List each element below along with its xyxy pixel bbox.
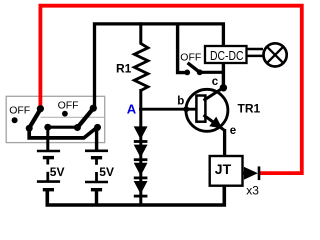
wire: node A to base (139, 108, 197, 111)
svg-text:x3: x3 (246, 183, 259, 197)
diode D5 (x3) (244, 167, 258, 180)
battery B1 (46, 126, 49, 151)
diode D3 (134, 163, 148, 176)
wire: S1 common to B2 feed (lower bus) (29, 128, 97, 138)
lamp L1 (264, 43, 287, 66)
DC-DC converter box U1 (205, 46, 247, 63)
wire: JT to diode anode (243, 172, 248, 175)
wire: battery B2 bottom stub (95, 189, 98, 206)
wire: black rail from switch S2 up, across top, down to DC-DC (95, 24, 224, 107)
wire: S3 feed from top rail (178, 26, 185, 73)
wire: DC-DC to lamp (lower) (247, 55, 264, 58)
svg-text:JT: JT (215, 161, 232, 177)
S1 top contact dot (37, 105, 44, 112)
S1 off contact dot (12, 117, 18, 123)
node b junction dot (183, 106, 189, 112)
svg-text:5V: 5V (50, 165, 65, 179)
svg-text:TR1: TR1 (238, 102, 261, 116)
transistor TR1 (186, 89, 228, 131)
svg-text:OFF: OFF (58, 100, 79, 112)
svg-text:OFF: OFF (9, 105, 30, 117)
wire: bottom ground rail (47, 186, 224, 205)
S3 lever (open) (188, 63, 200, 72)
wire: DC-DC to lamp (upper) (247, 48, 264, 51)
switch panel grey box (6, 96, 105, 142)
svg-text:DC-DC: DC-DC (210, 49, 244, 63)
S2 common dot (74, 124, 81, 131)
svg-text:c: c (212, 76, 219, 88)
diode D2 (134, 145, 148, 158)
svg-text:e: e (230, 125, 236, 137)
diode D4 (134, 181, 148, 194)
S2 lever (78, 109, 93, 127)
battery B2 (95, 127, 98, 152)
wire: DC-DC bottom to node c (222, 62, 225, 88)
wire: emitter down to JT (223, 129, 226, 157)
svg-text:5V: 5V (99, 165, 114, 179)
wire: upper bus B1 feed to S2 common (48, 126, 78, 129)
wire: S3 to collector line (200, 71, 224, 74)
wire: red positive rail (switch S1 up, across top, down right side, to diode x3) (40, 6, 301, 173)
node c dot (220, 84, 227, 91)
S1 lever (30, 110, 40, 127)
node B1 feed dot (44, 124, 51, 131)
S3 left contact dot (184, 70, 190, 76)
wire: R1 top feed (139, 22, 142, 44)
resistor R1 (134, 44, 148, 91)
JT box U2 (210, 156, 243, 186)
S2 top contact dot (90, 105, 97, 112)
svg-text:b: b (177, 96, 184, 108)
panel inner grey line (41, 116, 105, 118)
svg-text:R1: R1 (116, 61, 132, 75)
diode D1 (134, 126, 148, 139)
S2 off contact dot (62, 111, 68, 117)
wire: diode chain vertical (139, 89, 142, 205)
svg-text:A: A (127, 102, 137, 117)
S1 common dot (26, 125, 33, 132)
svg-text:OFF: OFF (180, 52, 201, 64)
S3 right contact dot (197, 69, 203, 75)
node B2 feed dot (94, 124, 101, 131)
